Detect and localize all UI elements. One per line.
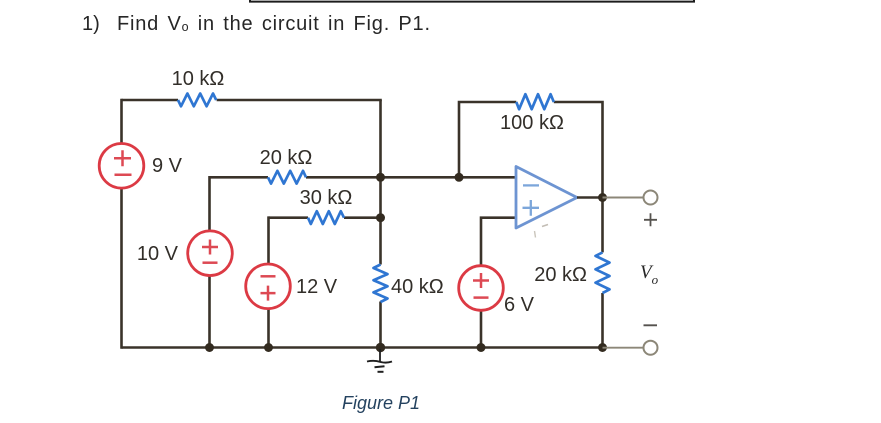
voltage source V3 12 V [246,264,338,309]
svg-text:1): 1) [82,13,100,35]
svg-text:6 V: 6 V [504,294,535,316]
feedback loop wires (node C up over op-amp) [459,102,603,198]
wire to noninverting input [481,218,516,349]
output terminal circle top [644,191,658,205]
svg-text:40 kΩ: 40 kΩ [391,276,444,298]
junction bottom under 40 kΩ [376,343,385,352]
voltage source V4 6 V [459,266,535,316]
svg-text:10 V: 10 V [137,243,179,265]
text-box bottom border (cropped frame at top) [250,0,694,2]
output terminal circle bottom [644,341,658,355]
output terminal wire top [603,197,644,199]
junction node D (output) [598,193,607,202]
junction node B second row [376,213,385,222]
resistor R1 10 kΩ [172,68,225,106]
svg-text:9 V: 9 V [152,155,183,177]
wire vertical above 12 V source [267,216,270,348]
voltage source V1 9 V [99,144,182,189]
junction bottom under 6 V [477,343,486,352]
svg-text:12 V: 12 V [296,276,338,298]
output terminal wire bottom [603,347,644,349]
faint print artifact below op-amp [542,225,548,227]
wire mid vertical (node B down) [379,100,382,348]
svg-text:10 kΩ: 10 kΩ [172,68,225,90]
wire right vertical below output node [601,196,604,348]
svg-text:30 kΩ: 30 kΩ [300,187,353,209]
svg-text:100 kΩ: 100 kΩ [500,112,564,134]
junction node B top row [376,173,385,182]
resistor R2 20 kΩ [260,147,313,184]
resistor R4 40 kΩ (vertical) [374,265,444,303]
resistor R6 20 kΩ (vertical right) [534,252,609,293]
wire vertical above 10 V source [208,176,211,349]
svg-text:Find Vo in the circuit in Fig.: Find Vo in the circuit in Fig. P1. [117,13,431,35]
wire bottom horizontal [122,346,603,349]
svg-text:20 kΩ: 20 kΩ [534,264,587,286]
wire row through 30 kΩ [269,216,381,219]
wire left vertical [120,99,123,349]
ground [367,349,392,372]
svg-text:20 kΩ: 20 kΩ [260,147,313,169]
junction bottom under 20 kΩ [598,343,607,352]
wire op-amp output to node D [577,196,603,199]
resistor R3 30 kΩ [300,187,353,224]
wire top-left horizontal (node A to node B) [122,99,382,102]
wire row to inverting input [210,176,517,179]
resistor R5 100 kΩ [500,94,564,134]
op-amp U1 [516,167,577,229]
output polarity plus [644,213,657,226]
junction bottom under 10 V [205,343,214,352]
voltage source V2 10 V [137,231,232,276]
svg-text:Figure P1: Figure P1 [342,393,420,413]
output polarity minus [644,324,658,326]
junction bottom under 12 V [264,343,273,352]
junction node C [455,173,464,182]
